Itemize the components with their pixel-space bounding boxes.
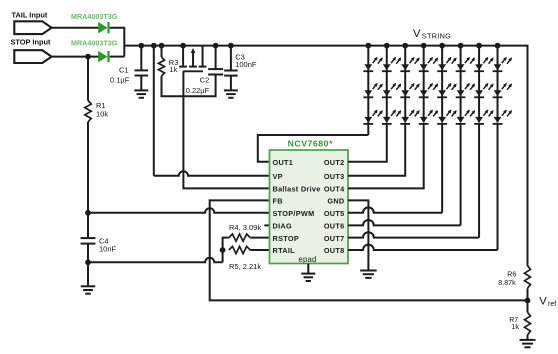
wire GND pin to ground bbox=[348, 200, 368, 270]
junction rail column 5 bbox=[439, 43, 445, 49]
wire VP pin bbox=[154, 171, 270, 176]
svg-text:MRA4003T3G: MRA4003T3G bbox=[71, 39, 118, 48]
resistor R4 bbox=[229, 234, 250, 241]
wire FB to Vref bbox=[210, 200, 528, 300]
wire OUT4 bbox=[348, 124, 424, 188]
label R3 1k bbox=[169, 58, 179, 74]
label D1 MRA4003T3G bbox=[71, 12, 118, 21]
LED column 5 row 3 bbox=[437, 109, 456, 124]
wire rail to C1 bbox=[140, 46, 142, 71]
label U1 NCV7680* bbox=[288, 138, 333, 148]
wire LED column 6 bbox=[460, 46, 462, 123]
transistor Q1 drain stub bbox=[199, 46, 207, 67]
svg-text:0.22µF: 0.22µF bbox=[186, 86, 210, 95]
junction rail VP wire bbox=[151, 43, 157, 49]
wire STOP/PWM node to C4 bbox=[87, 213, 89, 238]
svg-text:OUT6: OUT6 bbox=[324, 222, 345, 231]
LED column 3 row 2 bbox=[400, 83, 419, 98]
label C1 0.1uF bbox=[110, 65, 130, 84]
LED column 7 row 1 bbox=[474, 57, 493, 71]
ground R7 bbox=[520, 340, 536, 347]
capacitor C4 bbox=[81, 238, 96, 244]
LED column 7 row 2 bbox=[474, 83, 493, 98]
svg-text:NCV7680*: NCV7680* bbox=[288, 138, 333, 148]
wire STOP input to diode D2 bbox=[52, 56, 99, 58]
resistor R6 bbox=[525, 266, 531, 289]
resistor R1 bbox=[85, 101, 91, 122]
wire RSTOP pin to R4 bbox=[250, 237, 269, 239]
svg-text:MRA4003T3G: MRA4003T3G bbox=[71, 12, 118, 21]
LED column 4 row 2 bbox=[419, 83, 438, 98]
wire STOP node to R1 bbox=[87, 57, 89, 101]
ground C3 bbox=[224, 90, 238, 97]
junction R4/R5 bbox=[220, 247, 226, 253]
wire LED column 7 bbox=[478, 46, 480, 123]
wire OUT7 bbox=[348, 124, 479, 238]
ground epad bbox=[301, 274, 315, 281]
junction rail column 6 bbox=[458, 43, 464, 49]
wire STOP/PWM pin bbox=[88, 208, 270, 213]
label C3 100nF bbox=[235, 52, 257, 69]
label V_STRING bbox=[413, 28, 451, 41]
label R7 1k bbox=[509, 316, 519, 331]
wire R4R5 junction to C4 node bbox=[88, 258, 223, 263]
label STOP Input bbox=[11, 37, 52, 46]
svg-text:DIAG: DIAG bbox=[273, 222, 292, 231]
ground C1 bbox=[134, 90, 148, 97]
junction rail column 7 bbox=[476, 43, 482, 49]
svg-text:epad: epad bbox=[298, 255, 316, 264]
LED column 3 row 3 bbox=[400, 109, 419, 124]
wire LED column 1 bbox=[367, 46, 369, 135]
connector STOP input bbox=[14, 50, 51, 63]
wire RTAIL pin to R5 bbox=[250, 249, 269, 251]
label C4 10nF bbox=[99, 237, 117, 254]
label R5 2.21k bbox=[229, 262, 261, 271]
capacitor C1 bbox=[135, 70, 149, 75]
resistor R3 bbox=[159, 57, 165, 76]
wire LED column 5 bbox=[441, 46, 443, 123]
resistor R5 bbox=[229, 246, 250, 253]
LED column 4 row 1 bbox=[419, 57, 438, 71]
svg-text:100nF: 100nF bbox=[235, 60, 257, 69]
svg-text:R4, 3.09k: R4, 3.09k bbox=[229, 223, 261, 232]
LED column 3 row 1 bbox=[400, 57, 419, 71]
wire LED column 8 bbox=[497, 46, 499, 123]
LED column 6 row 3 bbox=[456, 109, 476, 124]
LED column 6 row 1 bbox=[456, 57, 476, 71]
svg-text:0.1µF: 0.1µF bbox=[110, 75, 130, 84]
svg-text:RSTOP: RSTOP bbox=[273, 234, 300, 243]
LED column 2 row 3 bbox=[382, 109, 401, 124]
svg-text:VP: VP bbox=[273, 172, 283, 181]
junction rail column 1 bbox=[365, 43, 371, 49]
op-amp U1 NCV7680 body bbox=[270, 150, 349, 264]
LED column 5 row 2 bbox=[437, 83, 456, 98]
svg-text:1k: 1k bbox=[511, 323, 519, 331]
svg-text:OUT2: OUT2 bbox=[324, 158, 345, 167]
svg-text:V: V bbox=[539, 295, 547, 307]
junction rail column 8 bbox=[495, 43, 501, 49]
junction rail column 2 bbox=[384, 43, 390, 49]
junction rail C1 bbox=[138, 43, 144, 49]
wire DIAG stub bbox=[264, 224, 269, 226]
junction STOP/R1 node bbox=[85, 54, 91, 60]
LED column 8 row 3 bbox=[493, 109, 512, 124]
svg-text:OUT3: OUT3 bbox=[324, 172, 345, 181]
svg-text:RTAIL: RTAIL bbox=[273, 246, 296, 255]
junction rail column 4 bbox=[421, 43, 427, 49]
svg-text:STOP Input: STOP Input bbox=[11, 37, 52, 46]
LED column 1 row 2 bbox=[363, 83, 383, 98]
wire R7 to ground bbox=[527, 335, 529, 340]
svg-text:C2: C2 bbox=[200, 76, 210, 85]
wire rail to VP pin vertical bbox=[153, 46, 155, 176]
transistor Q1 source stub bbox=[179, 46, 187, 67]
svg-text:V: V bbox=[413, 28, 421, 40]
svg-text:OUT1: OUT1 bbox=[273, 158, 294, 167]
svg-text:GND: GND bbox=[327, 197, 344, 206]
label R1 10k bbox=[96, 101, 108, 119]
wire Q1 gate to Ballast Drive pin bbox=[183, 71, 269, 188]
wire OUT6 bbox=[348, 124, 461, 225]
LED column 6 row 2 bbox=[456, 83, 476, 98]
wire rail to C2 bbox=[215, 46, 217, 70]
wire R3 to C2 bottom bbox=[162, 75, 216, 97]
label epad bbox=[298, 255, 316, 264]
svg-text:10k: 10k bbox=[96, 110, 108, 119]
junction Vref bbox=[525, 298, 531, 304]
wire R1 to STOP/PWM node bbox=[87, 122, 89, 213]
svg-text:OUT5: OUT5 bbox=[324, 209, 345, 218]
junction STOP/PWM node bbox=[85, 210, 91, 216]
wire OUT3 bbox=[348, 124, 405, 176]
wire node to ground bbox=[87, 262, 89, 286]
wire VP rail bbox=[124, 46, 527, 266]
svg-text:FB: FB bbox=[273, 197, 283, 206]
svg-text:10nF: 10nF bbox=[99, 244, 117, 253]
transistor Q1 gate bar bbox=[183, 70, 203, 72]
LED column 4 row 3 bbox=[419, 109, 438, 124]
wire LED column 4 bbox=[423, 46, 425, 123]
ground GND net bbox=[360, 271, 377, 278]
label V_ref bbox=[539, 295, 556, 308]
resistor R7 bbox=[525, 312, 531, 335]
LED column 8 row 2 bbox=[493, 83, 512, 98]
label D2 MRA4003T3G bbox=[71, 39, 118, 48]
transistor Q1 arrow bbox=[189, 48, 197, 67]
pin labels U1 right bbox=[324, 158, 345, 255]
wire rail to R3 bbox=[161, 46, 163, 57]
label TAIL Input bbox=[12, 10, 48, 19]
junction C4 ground-side node bbox=[85, 259, 91, 265]
connector TAIL input bbox=[14, 21, 51, 34]
svg-text:ref: ref bbox=[548, 301, 556, 308]
LED column 2 row 2 bbox=[382, 83, 401, 98]
LED column 1 row 1 bbox=[363, 57, 383, 71]
svg-text:OUT8: OUT8 bbox=[324, 246, 345, 255]
wire D1 cathode to VP node bbox=[110, 28, 125, 57]
wire junction down to C4 wire bbox=[222, 250, 224, 262]
diode D1 MRA4003T3G bbox=[98, 22, 108, 33]
wire OUT8 bbox=[348, 124, 498, 250]
svg-text:OUT7: OUT7 bbox=[324, 234, 345, 243]
svg-text:R5, 2.21k: R5, 2.21k bbox=[229, 262, 261, 271]
ground C4 bbox=[81, 286, 96, 293]
junction rail column 3 bbox=[402, 43, 408, 49]
wire C1 to ground bbox=[140, 76, 142, 91]
svg-text:OUT4: OUT4 bbox=[324, 185, 345, 194]
junction rail R3 bbox=[159, 43, 165, 49]
wire D2 cathode to VP node bbox=[110, 56, 125, 58]
wire R4 to junction bbox=[223, 238, 229, 250]
capacitor C2 bbox=[208, 69, 223, 74]
wire rail to C3 bbox=[230, 46, 232, 71]
diode D2 MRA4003T3G bbox=[98, 51, 108, 62]
svg-text:STOP/PWM: STOP/PWM bbox=[273, 209, 315, 218]
capacitor C3 bbox=[224, 71, 238, 76]
svg-text:Ballast Drive: Ballast Drive bbox=[273, 185, 321, 194]
LED column 8 row 1 bbox=[493, 57, 512, 71]
svg-text:R6: R6 bbox=[507, 270, 516, 278]
LED column 1 row 3 bbox=[363, 109, 383, 124]
wire OUT1 to LED column 1 bbox=[258, 135, 369, 162]
junction rail C2 bbox=[213, 43, 219, 49]
wire LED column 2 bbox=[386, 46, 388, 123]
svg-text:8.87k: 8.87k bbox=[498, 279, 516, 287]
junction rail Q1 source bbox=[180, 43, 186, 49]
wire OUT2 bbox=[348, 124, 387, 162]
svg-text:C1: C1 bbox=[119, 65, 129, 74]
wire LED column 3 bbox=[404, 46, 406, 123]
svg-text:R1: R1 bbox=[96, 101, 106, 110]
svg-text:1k: 1k bbox=[170, 65, 178, 74]
junction rail C3 bbox=[228, 43, 234, 49]
LED column 7 row 3 bbox=[474, 109, 493, 124]
LED column 5 row 1 bbox=[437, 57, 456, 71]
label C2 0.22uF bbox=[186, 76, 210, 95]
LED column 2 row 1 bbox=[382, 57, 401, 71]
wire R6 to Vref bbox=[527, 288, 529, 312]
label R4 3.09k bbox=[229, 223, 261, 232]
wire C4 to ground node bbox=[87, 244, 89, 263]
wire OUT5 bbox=[348, 124, 442, 213]
wire C3 to ground bbox=[230, 76, 232, 90]
svg-text:TAIL Input: TAIL Input bbox=[12, 10, 48, 19]
svg-text:STRING: STRING bbox=[422, 31, 451, 40]
wire epad to ground bbox=[307, 264, 309, 274]
label R6 8.87k bbox=[498, 270, 516, 287]
pin labels U1 left bbox=[273, 158, 321, 255]
wire TAIL input to diode D1 bbox=[52, 27, 99, 29]
